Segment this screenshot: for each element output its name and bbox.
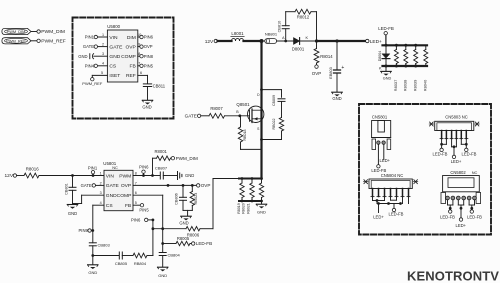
svg-text:PIN6: PIN6 (139, 165, 149, 170)
svg-text:REF: REF (126, 73, 136, 79)
svg-text:K: K (306, 36, 309, 40)
svg-text:LED+: LED+ (456, 223, 467, 228)
svg-text:LED-FB: LED-FB (440, 215, 455, 220)
svg-text:GND: GND (158, 273, 167, 278)
svg-text:CB807: CB807 (155, 165, 168, 170)
svg-text:VIN: VIN (109, 35, 118, 41)
svg-text:GNDCOMP: GNDCOMP (106, 193, 132, 199)
svg-text:FB: FB (130, 64, 136, 70)
svg-text:R8012: R8012 (297, 15, 310, 20)
svg-text:PWM_DIM: PWM_DIM (7, 29, 26, 34)
svg-text:KENOTRONTV: KENOTRONTV (407, 269, 499, 283)
svg-text:CN5802: CN5802 (450, 170, 466, 175)
svg-text:R8005: R8005 (177, 236, 190, 241)
svg-text:R8001: R8001 (155, 149, 168, 154)
svg-text:CB809: CB809 (272, 95, 276, 106)
svg-text:CB801: CB801 (65, 183, 69, 195)
svg-text:GATE: GATE (81, 183, 92, 188)
svg-text:LED-FB: LED-FB (433, 151, 448, 156)
svg-text:CB803: CB803 (98, 242, 111, 247)
svg-text:OVP: OVP (125, 44, 135, 50)
svg-text:R8007: R8007 (210, 106, 223, 111)
svg-text:PIN8: PIN8 (144, 54, 154, 59)
svg-text:GATE: GATE (109, 44, 123, 50)
svg-text:OVP: OVP (312, 71, 322, 76)
svg-text:S: S (257, 127, 260, 131)
svg-text:FB: FB (125, 203, 131, 209)
svg-text:RB018: RB018 (243, 130, 247, 141)
svg-text:R8016: R8016 (26, 167, 39, 172)
svg-text:RB023: RB023 (194, 193, 198, 205)
svg-text:5: 5 (101, 71, 103, 75)
svg-text:PIN1: PIN1 (85, 35, 95, 40)
svg-text:R8037: R8037 (393, 80, 398, 91)
svg-text:LED-FB: LED-FB (467, 215, 482, 220)
svg-text:NB801: NB801 (265, 32, 278, 37)
svg-text:LED+: LED+ (370, 39, 382, 45)
svg-text:LED-FB: LED-FB (196, 241, 212, 246)
svg-text:5: 5 (135, 201, 137, 205)
svg-text:7: 7 (135, 181, 137, 185)
svg-text:GND: GND (185, 173, 194, 178)
svg-text:CS: CS (109, 64, 117, 70)
svg-text:PWM: PWM (119, 173, 131, 179)
svg-text:CN5801: CN5801 (372, 115, 388, 120)
svg-text:PIN5: PIN5 (144, 63, 154, 68)
svg-text:PIN6: PIN6 (131, 217, 141, 222)
svg-text:1: 1 (102, 33, 104, 37)
svg-text:LED-FB: LED-FB (462, 151, 477, 156)
svg-text:PIN9: PIN9 (78, 228, 88, 233)
svg-text:LED+: LED+ (380, 158, 391, 163)
svg-text:2: 2 (102, 43, 104, 47)
svg-text:PIN5: PIN5 (139, 207, 149, 212)
svg-text:R8020: R8020 (242, 203, 246, 214)
svg-text:PIN6: PIN6 (144, 35, 154, 40)
svg-text:VIN: VIN (106, 173, 115, 179)
svg-text:4: 4 (100, 201, 102, 205)
svg-text:+: + (341, 65, 344, 71)
svg-text:GND: GND (88, 270, 97, 275)
svg-text:LED+: LED+ (451, 159, 462, 164)
svg-text:PIN4: PIN4 (85, 63, 95, 68)
svg-text:RB804: RB804 (134, 261, 147, 266)
svg-text:6: 6 (140, 71, 142, 75)
svg-text:D8001: D8001 (292, 46, 305, 51)
svg-text:EB803: EB803 (329, 67, 333, 78)
svg-text:3: 3 (102, 52, 104, 56)
svg-text:PWM_REF: PWM_REF (6, 38, 26, 43)
svg-text:U5800: U5800 (107, 24, 120, 29)
svg-text:4: 4 (102, 62, 104, 66)
svg-text:CB806: CB806 (175, 193, 179, 205)
svg-text:GND: GND (68, 211, 77, 216)
svg-text:R8019: R8019 (237, 203, 241, 214)
svg-text:D: D (257, 93, 260, 97)
svg-text:GND: GND (78, 54, 87, 59)
svg-text:R8039: R8039 (412, 80, 417, 91)
svg-text:PIN1: PIN1 (88, 166, 98, 171)
svg-text:12V: 12V (205, 39, 214, 45)
svg-text:CN5804 NC: CN5804 NC (381, 173, 404, 178)
svg-text:LED+: LED+ (373, 215, 384, 220)
svg-text:OVP: OVP (144, 44, 153, 49)
svg-text:A: A (282, 36, 285, 40)
svg-text:CB805: CB805 (115, 261, 128, 266)
svg-text:CB804: CB804 (168, 252, 181, 257)
svg-text:NC: NC (472, 170, 478, 175)
svg-text:GATE: GATE (106, 183, 120, 189)
svg-text:PWM_REF: PWM_REF (41, 39, 65, 45)
svg-text:GND: GND (257, 209, 266, 214)
svg-text:L8001: L8001 (231, 31, 244, 36)
svg-text:CS: CS (106, 203, 114, 209)
svg-text:8: 8 (135, 171, 137, 175)
svg-text:12V: 12V (5, 173, 14, 179)
svg-text:DIM: DIM (127, 35, 136, 41)
svg-text:Q8501: Q8501 (236, 102, 250, 107)
svg-text:RB022: RB022 (272, 119, 276, 130)
svg-text:GND: GND (142, 104, 151, 109)
svg-text:GND: GND (332, 96, 341, 101)
svg-text:R8014: R8014 (320, 54, 333, 59)
svg-text:CB811: CB811 (153, 83, 166, 88)
svg-text:6: 6 (135, 191, 137, 195)
svg-text:3: 3 (100, 191, 102, 195)
svg-text:CN5803 NC: CN5803 NC (445, 115, 468, 120)
svg-text:PWM_REF: PWM_REF (82, 81, 103, 86)
svg-text:GND: GND (109, 54, 120, 60)
svg-text:LED-FB: LED-FB (389, 212, 404, 217)
svg-text:OVP: OVP (201, 183, 211, 188)
svg-text:PWM_DIM: PWM_DIM (176, 156, 198, 161)
svg-text:GATE: GATE (83, 44, 94, 49)
svg-text:D8004: D8004 (378, 51, 382, 62)
svg-text:2: 2 (100, 181, 102, 185)
svg-text:PWM_DIM: PWM_DIM (41, 29, 65, 35)
svg-text:GND: GND (383, 77, 392, 81)
svg-text:R8038: R8038 (402, 80, 407, 91)
svg-text:1: 1 (100, 171, 102, 175)
svg-text:K: K (379, 66, 382, 70)
svg-text:OVP: OVP (121, 183, 131, 189)
svg-text:CB810: CB810 (278, 21, 282, 33)
svg-text:GATE: GATE (185, 114, 197, 119)
svg-text:ISET: ISET (109, 73, 120, 79)
svg-text:NC: NC (112, 165, 118, 170)
svg-text:R8021: R8021 (246, 203, 250, 214)
svg-text:R8040: R8040 (422, 79, 427, 91)
svg-text:B: B (236, 110, 239, 114)
svg-text:COMP: COMP (121, 54, 136, 60)
svg-text:LED-FB: LED-FB (378, 26, 394, 31)
svg-text:GND: GND (179, 220, 188, 225)
